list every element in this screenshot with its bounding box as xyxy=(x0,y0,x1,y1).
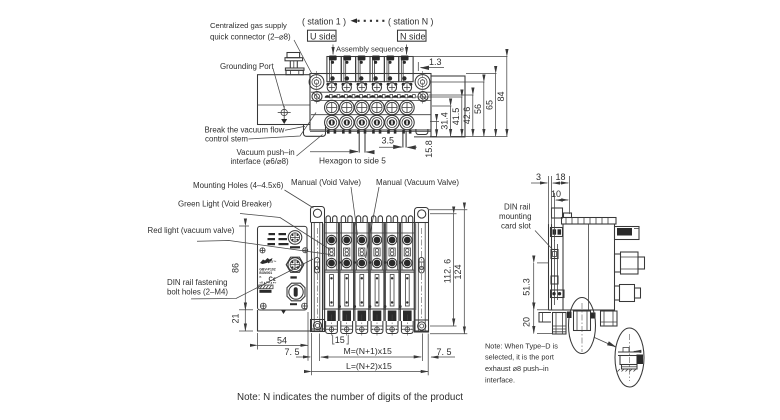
centralized gas supply quick connector (fitting on top of U block) xyxy=(285,53,304,75)
leader card slot xyxy=(535,231,553,251)
svg-text:31.4: 31.4 xyxy=(440,112,450,130)
leader red light xyxy=(197,241,330,255)
top cap strip (knurled) xyxy=(562,213,617,224)
dim 7.5 left xyxy=(285,347,311,357)
detail view balloon (enlarged) xyxy=(615,328,644,387)
right side connectors xyxy=(615,227,645,302)
dim 42.6 xyxy=(462,95,473,136)
side view main body xyxy=(563,224,615,310)
svg-text:Manual (Void Valve): Manual (Void Valve) xyxy=(291,178,361,187)
U side box xyxy=(308,30,337,41)
valve body station 5 (top view) xyxy=(384,56,398,82)
lower DIN clip xyxy=(551,290,565,298)
svg-text:15: 15 xyxy=(335,335,345,345)
dim 1.3 (top view) xyxy=(413,57,444,71)
top mounting ear right xyxy=(415,208,429,223)
svg-text:51.3: 51.3 xyxy=(522,278,532,296)
svg-text:Green Light (Void Breaker): Green Light (Void Breaker) xyxy=(178,200,272,209)
svg-text:Hexagon to side 5: Hexagon to side 5 xyxy=(319,156,386,166)
station 3 (front view) xyxy=(355,216,369,337)
leader to quick connector xyxy=(294,40,312,74)
svg-text:112. 6: 112. 6 xyxy=(443,259,453,283)
leader DIN rail fastening xyxy=(191,259,313,299)
indicator row pattern (top view) xyxy=(325,95,416,98)
tie rod slot right xyxy=(419,258,424,274)
valve body station 2 (top view) xyxy=(341,56,355,82)
right flange circles (gas supply connector N side) xyxy=(415,75,430,102)
plate corner screw top-left xyxy=(260,248,265,253)
svg-text:1.3: 1.3 xyxy=(429,57,442,67)
LED legend text rows on plate xyxy=(268,233,289,245)
plate corner screw bottom-left xyxy=(260,303,266,309)
station 1 (front view) xyxy=(325,216,339,337)
step under body right end xyxy=(416,129,428,135)
svg-text:Break the vacuum flow: Break the vacuum flow xyxy=(205,126,285,135)
leader manual void xyxy=(351,187,358,235)
svg-text:3.5: 3.5 xyxy=(382,136,395,146)
svg-text:41.5: 41.5 xyxy=(451,108,461,126)
side view dims 3 / 18 / 10 xyxy=(531,172,570,241)
svg-text:N side: N side xyxy=(400,31,426,41)
station 6 (top view) xyxy=(400,83,414,134)
rail hook bottom left xyxy=(539,313,551,323)
station 3 (top view) xyxy=(355,83,369,134)
station 5 (front view) xyxy=(385,216,399,337)
svg-text:DIN rail: DIN rail xyxy=(504,203,531,212)
dim 21 xyxy=(231,310,254,331)
svg-text:interface (⌀6/⌀8): interface (⌀6/⌀8) xyxy=(231,157,290,166)
tie rod slot left xyxy=(315,258,320,274)
station boundary bands (front) xyxy=(323,224,416,311)
lower round connector xyxy=(615,286,620,300)
centerline through side view port xyxy=(581,303,583,352)
svg-text:10: 10 xyxy=(551,189,561,199)
left tie-rod column (front) xyxy=(311,207,325,332)
valve body station 4 (top view) xyxy=(370,56,384,82)
svg-text:card slot: card slot xyxy=(501,222,532,231)
leader from break label xyxy=(285,126,305,130)
svg-text:▶M™: ▶M™ xyxy=(268,260,276,264)
leader to grounding symbol xyxy=(273,69,284,108)
dim L=(N+2)x15 xyxy=(312,333,429,375)
svg-text:86: 86 xyxy=(231,263,241,273)
left flange circles (gas supply connector U side) xyxy=(309,75,324,102)
svg-text:Manual (Vacuum Valve): Manual (Vacuum Valve) xyxy=(376,178,459,187)
assembly sequence left arrow xyxy=(332,45,334,55)
station 2 (top view) xyxy=(340,83,354,134)
dim 15.8 xyxy=(424,122,437,158)
dim 86 xyxy=(231,226,254,310)
manifold body outline (top view) xyxy=(310,74,431,131)
leader vacuum push-in xyxy=(297,135,323,157)
station 2 (front view) xyxy=(340,216,354,337)
N-side end block (top view) xyxy=(414,76,465,137)
station 1 (top view) xyxy=(325,83,339,134)
leader mounting holes xyxy=(285,190,314,208)
dim 54 xyxy=(258,312,309,361)
dim 112.6 xyxy=(430,214,457,326)
svg-text:21: 21 xyxy=(231,313,241,323)
svg-text:Assembly sequence: Assembly sequence xyxy=(336,45,404,54)
upper DIN clip with dark squares xyxy=(551,228,563,237)
assembly sequence right arrow xyxy=(406,45,408,55)
svg-text:7. 5: 7. 5 xyxy=(437,347,452,357)
dim 65 xyxy=(485,74,496,137)
svg-text:exhaust ⌀8 push–in: exhaust ⌀8 push–in xyxy=(485,364,549,373)
svg-text:124: 124 xyxy=(453,264,463,279)
leader green light xyxy=(240,214,330,250)
svg-text:U side: U side xyxy=(310,31,336,41)
svg-text:bolt holes (2–M4): bolt holes (2–M4) xyxy=(167,288,228,297)
card slot detail xyxy=(551,250,558,259)
svg-text:3: 3 xyxy=(536,172,541,182)
note type-D (right) xyxy=(485,341,558,384)
svg-text:( station 1 ): ( station 1 ) xyxy=(302,17,346,27)
svg-text:mounting: mounting xyxy=(499,212,531,221)
dim 124 xyxy=(429,210,467,334)
svg-text:interface.: interface. xyxy=(485,375,515,384)
svg-text:DIN rail fastening: DIN rail fastening xyxy=(167,278,228,287)
station 4 (front view) xyxy=(370,216,384,337)
base pedestal under left plate xyxy=(258,310,312,331)
valve body station 1 (top view) xyxy=(327,56,341,82)
svg-text:84: 84 xyxy=(496,91,506,101)
N side box xyxy=(398,30,427,41)
svg-text:quick connector (2–⌀8): quick connector (2–⌀8) xyxy=(210,33,291,42)
svg-text:42.6: 42.6 xyxy=(462,107,472,125)
dim 41.5 xyxy=(451,97,462,136)
DIN clip column xyxy=(549,208,565,310)
svg-text:M=(N+1)x15: M=(N+1)x15 xyxy=(344,346,392,356)
svg-text:18: 18 xyxy=(556,172,566,182)
detail drawing inside balloon xyxy=(618,334,644,381)
svg-text:( station N ): ( station N ) xyxy=(388,17,434,27)
left end plate (front) xyxy=(258,226,308,310)
arrow from balloon to detail xyxy=(595,338,616,348)
svg-text:Mounting Holes (4–4.5x6): Mounting Holes (4–4.5x6) xyxy=(193,181,284,190)
right port fitting xyxy=(601,311,618,326)
foot block with port xyxy=(553,313,567,335)
dim 3.5 (top view) xyxy=(379,136,417,148)
dim 31.4 xyxy=(440,106,451,136)
svg-text:7. 5: 7. 5 xyxy=(285,347,300,357)
valve body station 3 (top view) xyxy=(356,56,370,82)
svg-text:56: 56 xyxy=(473,104,483,114)
station 4 (top view) xyxy=(370,83,384,134)
bottom mounting ear left xyxy=(311,329,325,331)
POWER connector (small knurled circle) xyxy=(288,231,302,249)
center port fitting xyxy=(574,311,591,331)
dim 20 xyxy=(522,310,554,334)
SIG2 oval button xyxy=(287,283,305,305)
middle round connector xyxy=(615,254,621,272)
detail balloon ellipse on side view xyxy=(569,298,596,354)
svg-text:Vacuum push–in: Vacuum push–in xyxy=(237,148,295,157)
grounding port symbol xyxy=(278,106,291,124)
dim M=(N+1)x15 xyxy=(320,334,423,362)
dim 56 xyxy=(473,82,484,136)
step under body left end (vacuum push-in ports) xyxy=(304,125,326,137)
body edge lines behind fittings (top view) xyxy=(311,99,431,101)
hexagon stem under station 3 xyxy=(359,131,365,152)
svg-text:L=(N+2)x15: L=(N+2)x15 xyxy=(346,361,392,371)
svg-text:20: 20 xyxy=(522,317,532,327)
svg-text:Centralized gas supply: Centralized gas supply xyxy=(210,21,287,30)
dim hexagon width (to side 5) xyxy=(310,151,374,153)
svg-text:15.8: 15.8 xyxy=(424,140,434,158)
dark chip right of foot xyxy=(567,312,572,319)
plate corner screw top-right xyxy=(303,248,308,253)
bottom section of side view xyxy=(539,310,617,334)
bottom mounting ear right xyxy=(415,320,429,332)
plate corner screw bottom-right xyxy=(302,303,308,309)
station 6 (front view) xyxy=(400,216,414,337)
svg-text:Note: N indicates the number o: Note: N indicates the number of digits o… xyxy=(237,392,463,403)
station 5 (top view) xyxy=(385,83,399,134)
svg-text:65: 65 xyxy=(485,100,495,110)
top view right-side dimension extension lines xyxy=(410,57,508,137)
leader manual vacuum xyxy=(366,187,380,258)
svg-text:Note: When Type–D is: Note: When Type–D is xyxy=(485,341,558,350)
top mounting ear left xyxy=(311,207,325,223)
dim 84 xyxy=(496,57,507,137)
dim 51.3 xyxy=(522,263,554,310)
push-in stem under station 6 xyxy=(403,131,406,147)
U-side end block (top view) xyxy=(258,75,311,125)
dim 7.5 right xyxy=(431,347,455,357)
right end plate column (front) xyxy=(415,208,429,333)
svg-text:Grounding Port: Grounding Port xyxy=(220,62,274,71)
svg-text:B: B xyxy=(259,275,261,279)
top connector block (dark) xyxy=(615,227,640,240)
dotted arrow between station labels xyxy=(351,18,386,23)
logo + model text block on plate xyxy=(259,258,277,293)
svg-text:selected, it is the port: selected, it is the port xyxy=(485,353,554,362)
svg-text:54: 54 xyxy=(277,336,287,346)
svg-text:control stem: control stem xyxy=(205,135,248,144)
valve body station 6 (top view) xyxy=(399,56,413,82)
top-left DIN tab xyxy=(552,208,563,218)
station body band top edge (front) xyxy=(324,222,415,224)
SIG1 connector (big knurled circle) xyxy=(286,257,304,278)
dim 15 pitch xyxy=(333,335,349,346)
svg-text:Red light (vacuum valve): Red light (vacuum valve) xyxy=(148,226,235,235)
